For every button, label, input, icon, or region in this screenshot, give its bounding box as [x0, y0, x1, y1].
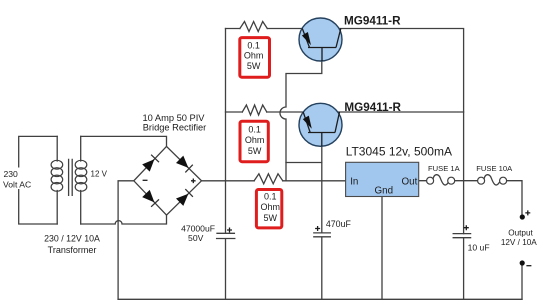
svg-text:10 uF: 10 uF: [468, 242, 490, 252]
svg-text:230 / 12V 10A: 230 / 12V 10A: [44, 233, 100, 243]
svg-text:12 V: 12 V: [91, 170, 108, 179]
svg-text:12V / 10A: 12V / 10A: [501, 238, 537, 247]
svg-text:Ohm: Ohm: [245, 135, 265, 145]
svg-text:0.1: 0.1: [247, 40, 260, 50]
svg-text:470uF: 470uF: [326, 219, 352, 229]
svg-text:MG9411-R: MG9411-R: [344, 101, 401, 114]
svg-text:Transformer: Transformer: [48, 245, 97, 255]
svg-text:0.1: 0.1: [248, 124, 261, 134]
svg-text:FUSE 10A: FUSE 10A: [476, 164, 513, 173]
svg-text:LT3045 12v, 500mA: LT3045 12v, 500mA: [346, 144, 452, 158]
svg-text:Bridge Rectifier: Bridge Rectifier: [143, 122, 207, 132]
svg-text:Out: Out: [402, 176, 418, 187]
svg-text:In: In: [350, 176, 358, 187]
svg-text:Ohm: Ohm: [261, 202, 281, 212]
svg-text:230: 230: [4, 169, 19, 179]
svg-text:FUSE 1A: FUSE 1A: [428, 164, 461, 173]
svg-text:Output: Output: [508, 228, 533, 237]
svg-text:5W: 5W: [264, 213, 278, 223]
svg-text:10 Amp 50 PIV: 10 Amp 50 PIV: [142, 113, 205, 123]
svg-text:MG9411-R: MG9411-R: [344, 14, 401, 27]
svg-text:0.1: 0.1: [264, 192, 277, 202]
svg-text:Gnd: Gnd: [375, 186, 394, 197]
svg-text:Volt AC: Volt AC: [3, 179, 31, 189]
svg-text:5W: 5W: [248, 146, 262, 156]
svg-text:Ohm: Ohm: [244, 50, 264, 60]
svg-text:47000uF: 47000uF: [181, 224, 215, 234]
svg-text:5W: 5W: [247, 61, 261, 71]
svg-text:50V: 50V: [188, 233, 204, 243]
